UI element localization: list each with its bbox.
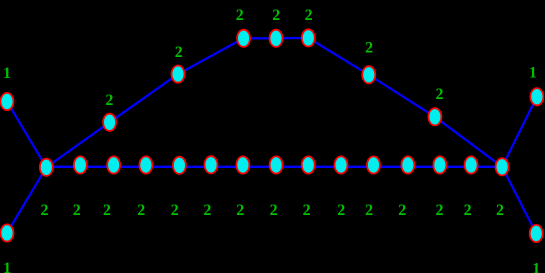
node ArcR1	[428, 108, 441, 125]
wire TL-HubL	[7, 102, 46, 168]
node r5	[205, 156, 218, 173]
svg-text:2: 2	[365, 40, 373, 57]
node r1	[74, 156, 87, 173]
svg-text:2: 2	[103, 202, 111, 219]
node r12	[433, 156, 446, 173]
wire BL-HubL	[7, 167, 46, 233]
node TL	[1, 93, 14, 110]
node r2	[107, 156, 120, 173]
svg-text:2: 2	[236, 7, 244, 24]
node TR	[530, 88, 543, 105]
node HubR	[496, 158, 509, 175]
node Top1	[237, 30, 250, 47]
node r11	[401, 156, 414, 173]
node r4	[173, 157, 186, 174]
svg-text:2: 2	[105, 92, 113, 109]
svg-text:1: 1	[3, 65, 11, 82]
svg-text:2: 2	[464, 202, 472, 219]
wire HubR-TR	[502, 97, 537, 167]
node r10	[367, 156, 380, 173]
svg-text:2: 2	[73, 202, 81, 219]
svg-text:2: 2	[436, 86, 444, 103]
node BL	[1, 224, 14, 241]
svg-text:1: 1	[529, 65, 537, 82]
svg-text:2: 2	[365, 202, 373, 219]
wire HubL-ArcL1	[46, 122, 109, 167]
node r9	[335, 156, 348, 173]
svg-text:2: 2	[203, 202, 211, 219]
node r3	[139, 156, 152, 173]
svg-text:2: 2	[337, 202, 345, 219]
node r7	[270, 156, 283, 173]
node ArcL2	[172, 66, 185, 83]
node r6	[236, 156, 249, 173]
svg-text:2: 2	[41, 202, 49, 219]
svg-text:2: 2	[270, 202, 278, 219]
svg-text:1: 1	[3, 260, 11, 273]
node Top2	[270, 30, 283, 47]
wire Top3-ArcR2	[308, 38, 369, 75]
svg-text:2: 2	[272, 7, 280, 24]
wire ArcR2-ArcR1	[369, 75, 435, 117]
node BR	[530, 225, 543, 242]
wire ArcL2-Top1	[178, 38, 244, 74]
node ArcL1	[103, 114, 116, 131]
node ArcR2	[362, 66, 375, 83]
svg-text:2: 2	[305, 7, 313, 24]
svg-text:2: 2	[436, 202, 444, 219]
svg-text:2: 2	[137, 202, 145, 219]
wire ArcL1-ArcL2	[110, 74, 178, 122]
svg-text:2: 2	[303, 202, 311, 219]
wire Top2-Top3	[276, 37, 308, 40]
svg-text:2: 2	[398, 202, 406, 219]
wire HubR-BR	[502, 167, 536, 234]
svg-text:2: 2	[171, 202, 179, 219]
node Top3	[302, 29, 315, 46]
node r8	[302, 156, 315, 173]
wire row	[46, 166, 502, 168]
svg-text:2: 2	[175, 44, 183, 61]
svg-text:1: 1	[532, 261, 540, 273]
wire Top1-Top2	[244, 37, 276, 39]
node HubL	[40, 159, 53, 176]
node r13	[465, 156, 478, 173]
svg-text:2: 2	[236, 202, 244, 219]
wire ArcR1-HubR	[435, 117, 502, 167]
svg-text:2: 2	[496, 202, 504, 219]
